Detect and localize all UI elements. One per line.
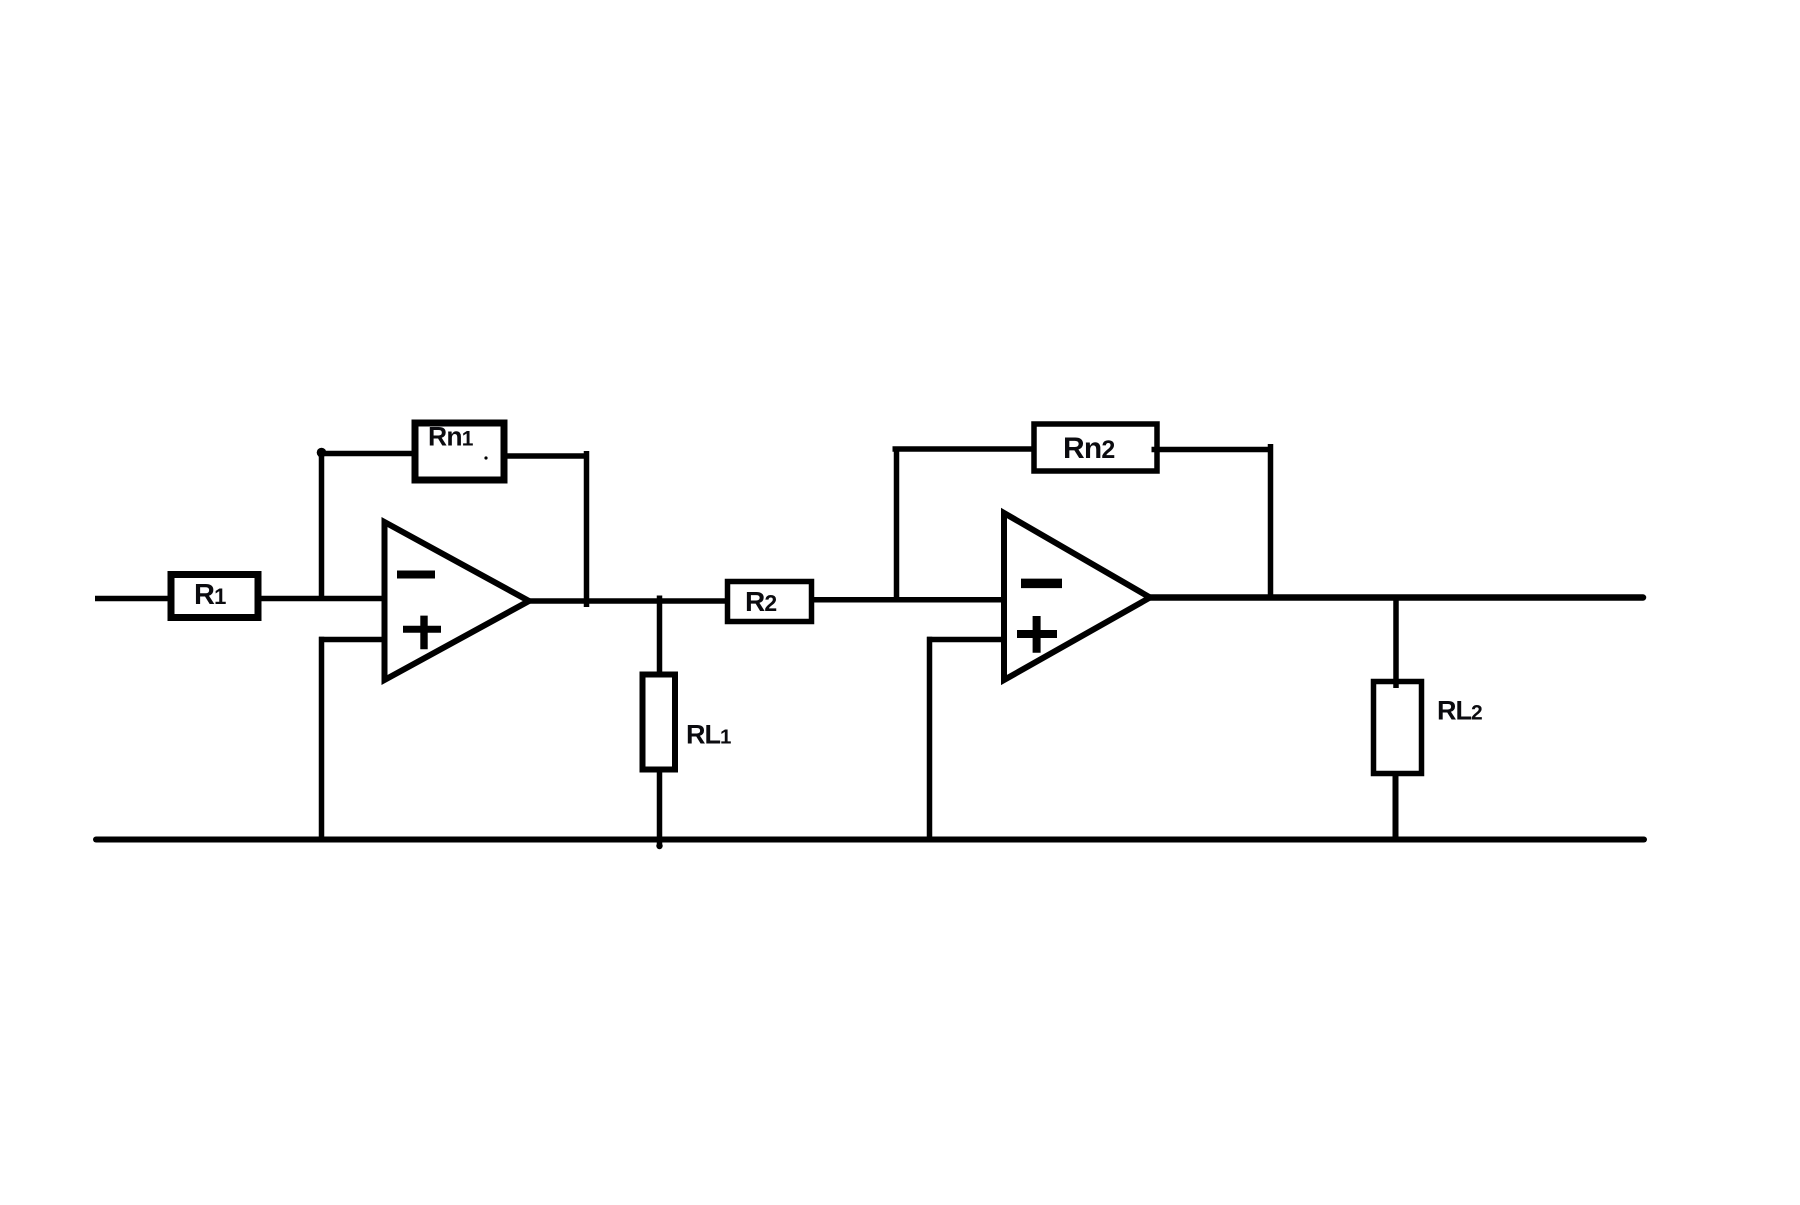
U1 minus sign	[397, 571, 435, 579]
wire: feedback 1 top horizontal	[318, 451, 416, 457]
resistor R1	[171, 575, 258, 618]
node D junction dot	[656, 843, 662, 849]
resistor Rn2	[1034, 424, 1157, 471]
wire: Rn1 to right vertical	[504, 453, 586, 459]
wire: U1 non-inverting input horizontal	[319, 637, 384, 643]
wire: feedback 1 right vertical	[584, 451, 590, 607]
wire: feedback 1 left vertical	[319, 451, 325, 598]
resistor RL2	[1374, 682, 1422, 774]
svg-text:Rn2: Rn2	[1063, 432, 1115, 465]
op-amp U2	[1004, 513, 1150, 680]
resistor Rn1	[415, 423, 504, 480]
op-amp U1	[385, 522, 530, 680]
wire: RL1 top tap vertical	[657, 596, 663, 676]
U1 plus sign	[403, 626, 441, 633]
resistor RL1	[643, 675, 676, 770]
U2 minus sign	[1021, 579, 1062, 589]
wire: feedback 2 left vertical	[894, 447, 900, 600]
svg-text:R1: R1	[194, 579, 226, 611]
wire: input left segment	[95, 596, 176, 602]
wire: RL2 bottom to rail	[1393, 771, 1399, 841]
U2 plus sign	[1017, 630, 1057, 638]
wire: feedback 2 top horizontal	[893, 446, 1036, 452]
wire: U1 non-inverting return vertical	[319, 637, 325, 841]
svg-text:R2: R2	[745, 586, 776, 617]
wire: R2 to op-amp U2 inverting input	[811, 597, 1004, 603]
wire: R1 to op-amp U1 inverting input	[261, 596, 384, 602]
wire: U2 output to right edge	[1149, 594, 1643, 601]
wire: RL1 bottom to rail	[657, 770, 663, 846]
node A junction dot	[317, 448, 327, 458]
wire: RL2 top tap vertical	[1393, 597, 1399, 688]
stray dot inside Rn1	[484, 456, 487, 459]
wire: U2 non-inverting return vertical	[927, 637, 933, 841]
resistor R2	[728, 582, 812, 622]
wire: feedback 2 right vertical	[1268, 444, 1274, 597]
wire: U2 non-inverting input horizontal	[927, 637, 1004, 643]
wire: U1 output to R2	[528, 598, 729, 604]
wire: Rn2 to right vertical	[1152, 447, 1272, 453]
wire: bottom rail	[96, 837, 1644, 843]
